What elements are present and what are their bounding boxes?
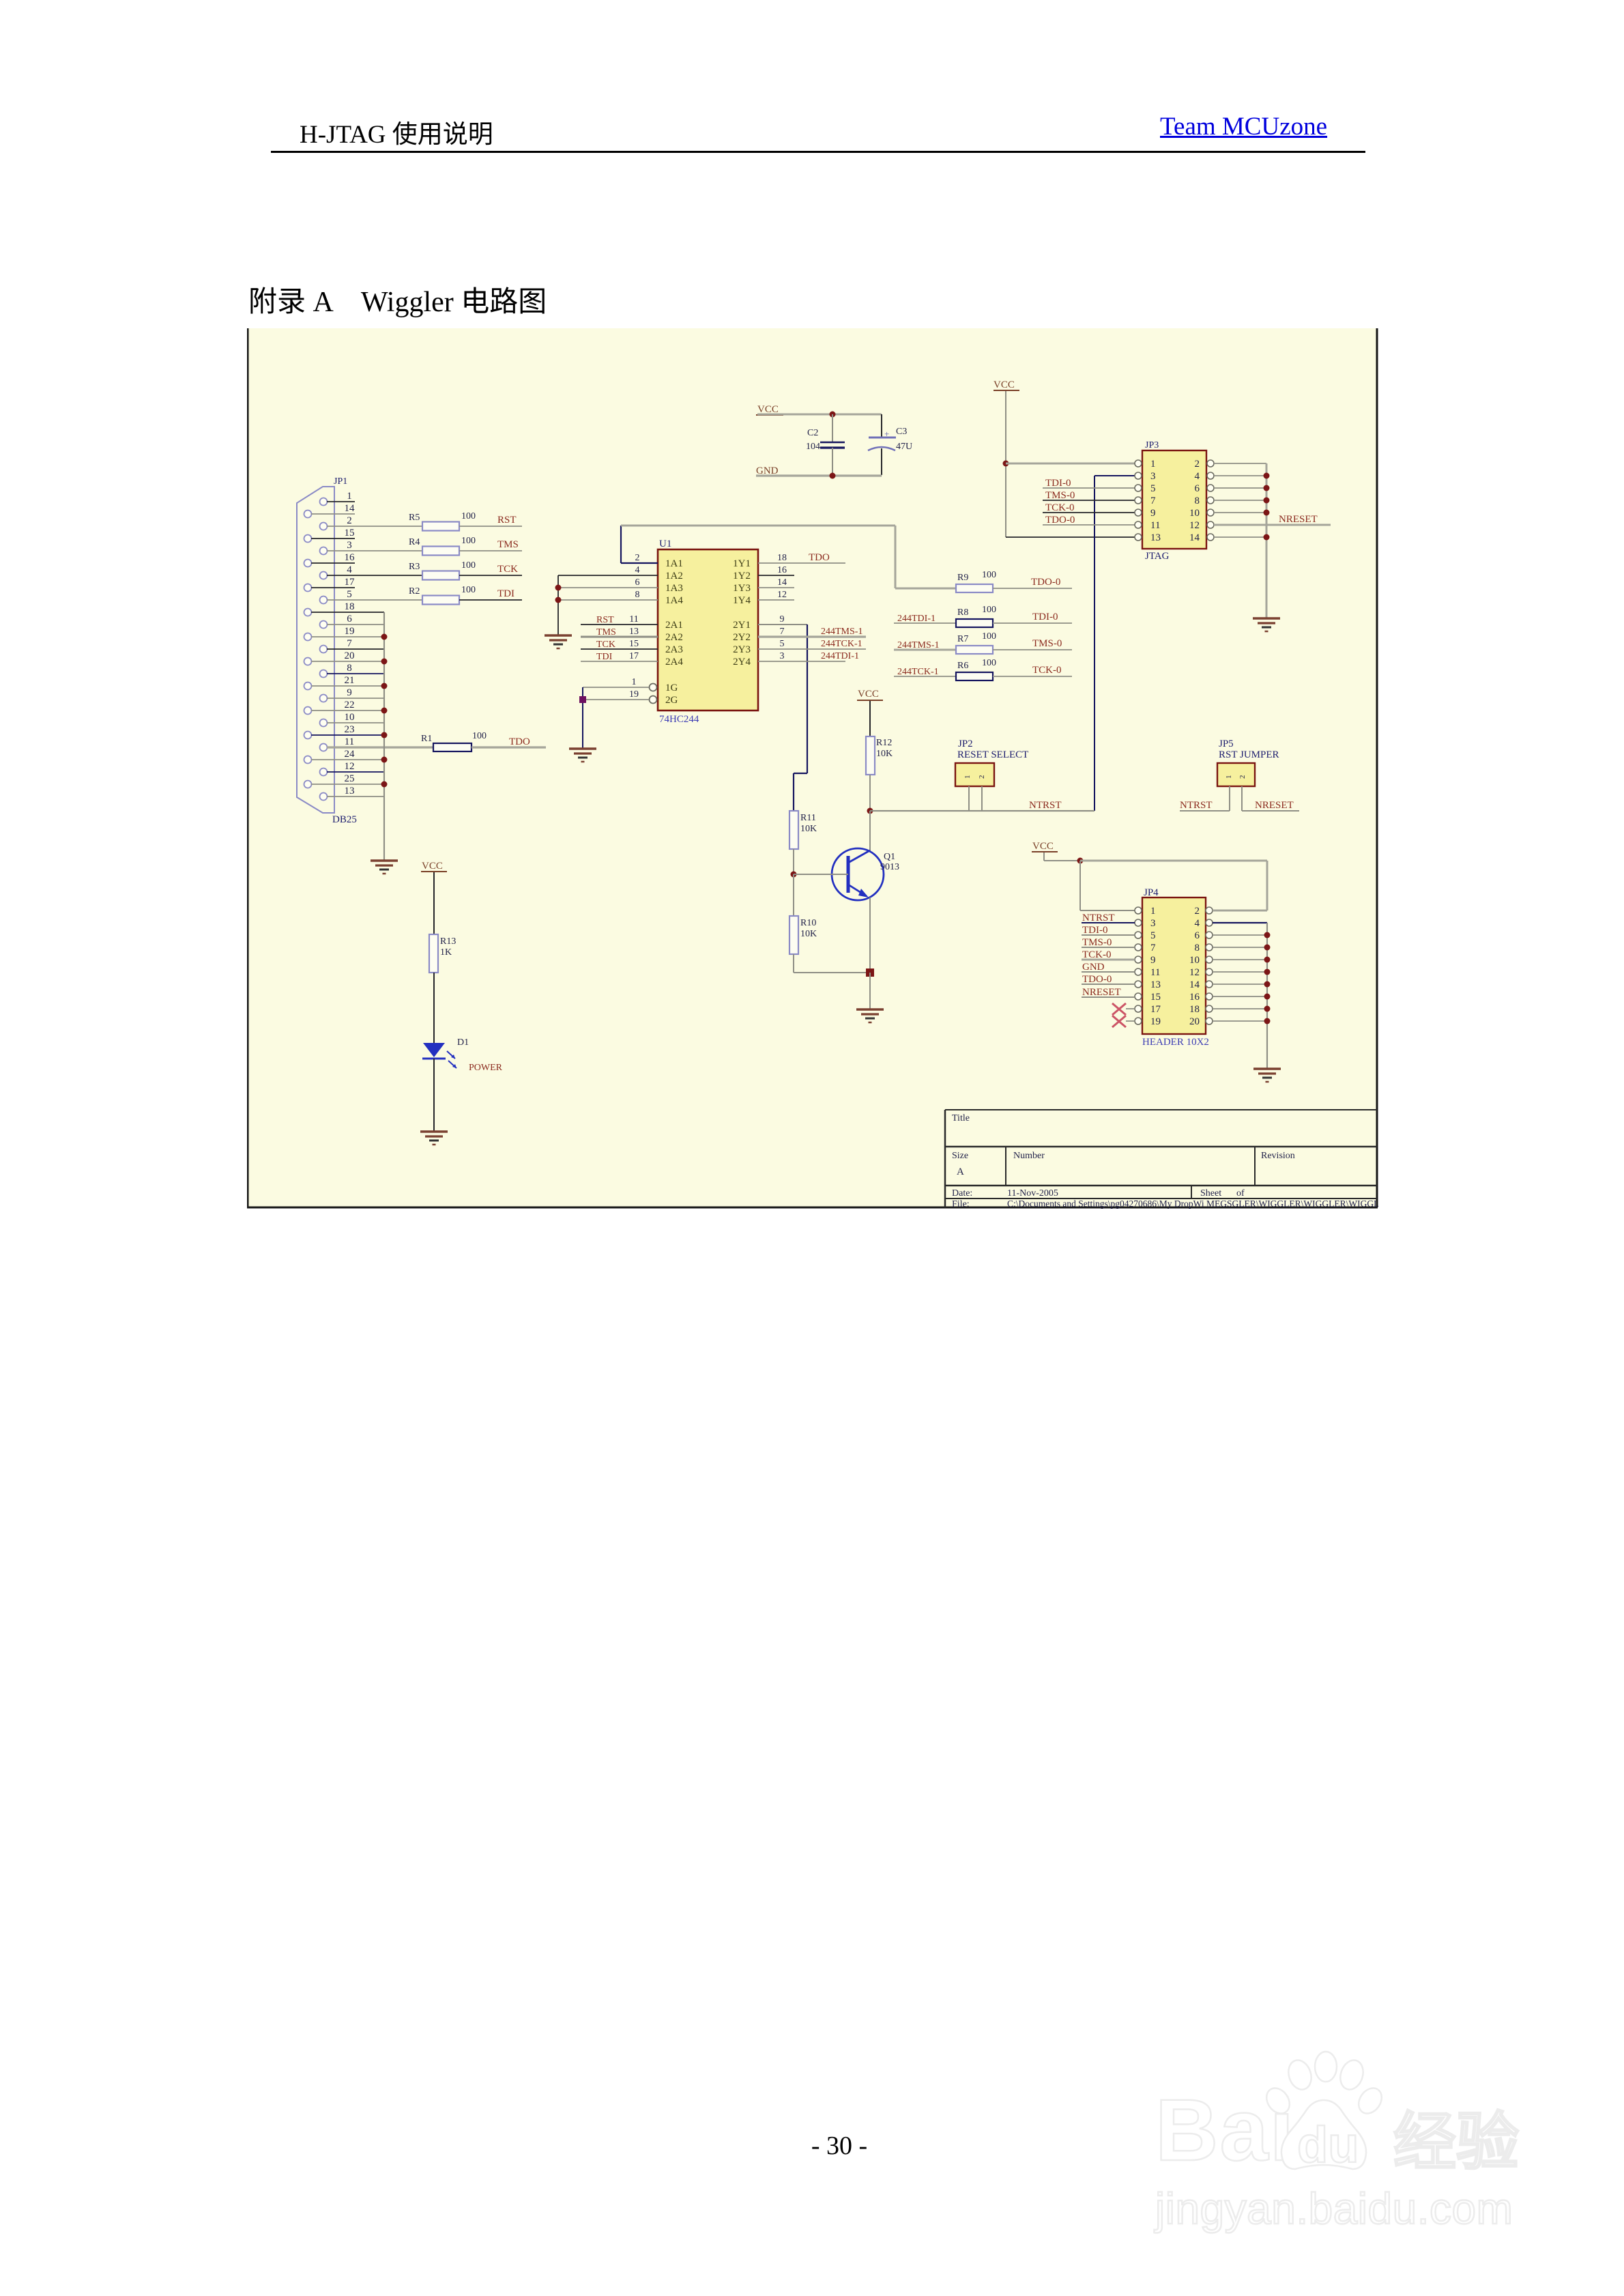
svg-text:12: 12 — [777, 590, 787, 600]
JP3 pin 4 circle — [1207, 472, 1214, 479]
svg-text:2: 2 — [1195, 459, 1200, 470]
svg-text:100: 100 — [982, 658, 996, 668]
JP4 pin number 7 — [1150, 943, 1156, 953]
junction JP4 even-pin tie at y=1370 — [1264, 932, 1271, 938]
U1 pin number 7 — [780, 627, 785, 637]
svg-text:1: 1 — [1225, 775, 1233, 779]
svg-text:1: 1 — [1150, 906, 1156, 917]
U1 pin number 4 — [635, 565, 640, 575]
svg-text:Revision: Revision — [1261, 1151, 1295, 1161]
svg-text:R10: R10 — [800, 918, 816, 928]
JP4 part label HEADER 10X2 — [1142, 1037, 1209, 1048]
resistor R12 10K — [866, 736, 893, 775]
JP3 pin number 5 — [1150, 483, 1156, 494]
wire TDO stub after R1 — [472, 746, 546, 748]
wire U1 2A input TCK — [581, 648, 658, 650]
net label TDO — [509, 736, 530, 747]
svg-text:20: 20 — [1189, 1016, 1200, 1027]
JP1 pin number 8 — [347, 663, 352, 674]
JP4 pin number 3 — [1150, 918, 1156, 929]
JP4 pin number 8 — [1195, 943, 1200, 953]
svg-text:244TDI-1: 244TDI-1 — [897, 614, 936, 624]
svg-text:15: 15 — [345, 528, 355, 539]
svg-text:17: 17 — [1150, 1004, 1161, 1015]
wire GND rail — [756, 474, 882, 476]
JP1 pin number 19 — [345, 626, 355, 637]
U1 pin name 2Y3 — [733, 644, 751, 655]
no-connect X at JP4 pin17 — [1112, 1003, 1135, 1015]
svg-text:TMS-0: TMS-0 — [1032, 638, 1062, 649]
wire U1 1G — [583, 687, 649, 688]
svg-text:jingyan.baidu.com: jingyan.baidu.com — [1154, 2184, 1513, 2233]
svg-text:1: 1 — [1150, 459, 1156, 470]
power net label GND — [756, 465, 779, 476]
svg-text:100: 100 — [461, 585, 476, 595]
U1 pin number 11 — [629, 614, 638, 625]
junction 2G ground tie — [579, 696, 586, 703]
wire R10 bottom to emitter node — [794, 954, 870, 973]
svg-text:TCK-0: TCK-0 — [1045, 502, 1075, 513]
U1 pin name 1Y3 — [733, 583, 751, 594]
svg-text:TMS: TMS — [596, 627, 616, 637]
wire 244TCK-1 into R6 — [894, 676, 956, 677]
junction JP4 even-pin tie at y=1478 — [1264, 1006, 1271, 1012]
JP4 pin number 18 — [1189, 1004, 1200, 1015]
U1 pin number 15 — [629, 639, 639, 649]
wire JP4 pin 8 stub — [1213, 947, 1267, 948]
wire drop from top rail to R9 — [895, 526, 897, 588]
net label NTRST at JP4 — [1082, 913, 1115, 923]
svg-text:10: 10 — [345, 712, 355, 723]
net label NTRST — [1029, 800, 1062, 811]
svg-text:6: 6 — [1195, 483, 1200, 494]
JP3 reference label — [1145, 440, 1159, 450]
JP1 pin 2 circle — [320, 523, 328, 530]
svg-text:TDO-0: TDO-0 — [1045, 515, 1075, 526]
JP1 pin number 6 — [347, 614, 352, 625]
wire JP4 pin 16 stub — [1213, 996, 1267, 997]
net label TDI — [497, 588, 514, 599]
JP4 pin 8 circle — [1206, 944, 1213, 951]
wire NTRST column (JP3 pin3 down to NTRST rail) — [1094, 476, 1095, 811]
JP4 pin 7 circle — [1135, 944, 1142, 951]
svg-text:23: 23 — [345, 724, 355, 735]
JP3 pin 12 circle — [1207, 521, 1214, 528]
svg-text:TDI: TDI — [497, 588, 514, 599]
JP3 pin number 10 — [1189, 508, 1200, 519]
svg-text:17: 17 — [629, 651, 639, 661]
svg-text:19: 19 — [345, 626, 355, 637]
wire VCC down to JP4 rail — [1044, 852, 1080, 861]
connector JP1 label — [334, 476, 347, 487]
JP1 pin 21 circle — [304, 683, 312, 690]
svg-text:R11: R11 — [800, 813, 816, 823]
wire JP3 pin1 — [1006, 463, 1135, 465]
svg-text:1G: 1G — [665, 683, 678, 693]
watermark paw pad — [1281, 2100, 1366, 2169]
svg-text:4: 4 — [635, 565, 640, 575]
header rule — [271, 151, 1365, 153]
svg-text:NTRST: NTRST — [1029, 800, 1062, 811]
watermark paw toes — [1285, 2057, 1315, 2093]
net label 244TMS-1 — [821, 627, 862, 637]
junction on JP1 ground bus at y=969 — [381, 659, 388, 665]
ground symbol for 1G/2G — [569, 749, 596, 762]
wire JP3 stub TDI-0 — [1043, 487, 1135, 489]
svg-text:17: 17 — [345, 577, 356, 588]
JP3 pin 11 circle — [1135, 521, 1142, 528]
JP5 label RST JUMPER — [1219, 749, 1279, 760]
svg-text:244TDI-1: 244TDI-1 — [821, 651, 859, 661]
svg-text:10: 10 — [1189, 955, 1200, 966]
JP1 pin 12 circle — [320, 769, 328, 776]
svg-text:RST: RST — [596, 615, 614, 625]
net label NRESET at JP5 — [1255, 800, 1294, 811]
ground symbol below JP3 — [1253, 618, 1280, 631]
svg-text:TDO: TDO — [509, 736, 530, 747]
wire D1 to ground — [433, 1059, 435, 1132]
svg-text:TDI: TDI — [596, 652, 613, 662]
JP4 pin 10 circle — [1206, 956, 1213, 963]
JP4 pin 20 circle — [1206, 1018, 1213, 1024]
title block Date field — [952, 1188, 1058, 1199]
wire base — [794, 874, 848, 875]
net label TDO-0 at JP4 — [1082, 974, 1112, 985]
wire JP4 pin4 stub — [1213, 922, 1267, 923]
JP3 pin number 7 — [1150, 496, 1156, 506]
resistor R11 10K — [789, 811, 817, 849]
JP4 pin number 14 — [1189, 979, 1200, 990]
junction on JP1 ground bus at y=933 — [381, 634, 388, 640]
U1 pin number 13 — [629, 627, 639, 637]
junction JP4 even-pin tie at y=1424 — [1264, 969, 1271, 975]
JP3 pin 6 circle — [1207, 485, 1214, 491]
connector JP2 body — [955, 763, 994, 786]
svg-text:13: 13 — [1150, 532, 1161, 543]
svg-text:74HC244: 74HC244 — [659, 714, 699, 725]
svg-text:4: 4 — [1195, 471, 1200, 482]
JP3 pin number 14 — [1189, 532, 1200, 543]
wire JP1 pin 7 — [327, 648, 384, 650]
JP3 pin number 13 — [1150, 532, 1161, 543]
svg-text:1A4: 1A4 — [665, 595, 683, 606]
U1 pin name 2A1 — [665, 620, 683, 631]
wire U1 1A3 input — [558, 587, 658, 588]
svg-text:RST JUMPER: RST JUMPER — [1219, 749, 1279, 760]
wire JP1 pin 25 — [311, 784, 384, 785]
U1 1G enable bubble — [650, 684, 657, 691]
junction on JP1 ground bus at y=1149 — [381, 781, 388, 788]
wire JP4 pin 18 stub — [1213, 1008, 1267, 1009]
svg-text:12: 12 — [1189, 967, 1200, 978]
JP1 pin 3 circle — [320, 547, 328, 555]
svg-text:RST: RST — [497, 515, 517, 526]
junction NTRST at R12/collector — [867, 808, 873, 814]
JP4 pin number 19 — [1150, 1016, 1161, 1027]
svg-text:TDI-0: TDI-0 — [1032, 612, 1058, 622]
title block outline — [945, 1110, 1377, 1207]
junction JP4 VCC rail — [1077, 858, 1084, 864]
junction JP4 even-pin tie at y=1442 — [1264, 981, 1271, 988]
junction JP3 even-pin tie at y=787 — [1264, 534, 1270, 541]
wire JP1 pin 14 — [311, 513, 355, 515]
JP1 pin 16 circle — [304, 560, 312, 567]
svg-text:4: 4 — [347, 564, 352, 575]
svg-text:TCK: TCK — [596, 640, 615, 650]
svg-text:R5: R5 — [409, 513, 420, 523]
svg-text:R2: R2 — [409, 586, 420, 597]
IC U1 74HC244 body — [658, 549, 758, 711]
svg-text:1A1: 1A1 — [665, 558, 683, 569]
svg-text:Size: Size — [952, 1151, 968, 1161]
JP1 pin number 4 — [347, 564, 352, 575]
net label TCK — [497, 564, 518, 575]
JP1 pin 6 circle — [320, 621, 328, 629]
JP4 pin 19 circle — [1135, 1018, 1142, 1024]
svg-text:2A3: 2A3 — [665, 644, 683, 655]
svg-text:TCK: TCK — [497, 564, 518, 575]
wire VCC rail to C2/C3 — [757, 414, 882, 416]
svg-text:2Y2: 2Y2 — [733, 632, 751, 643]
JP1 pin 22 circle — [304, 707, 312, 715]
svg-text:14: 14 — [777, 577, 787, 588]
net label TDO-0 at JP3 — [1045, 515, 1075, 526]
junction JP4 even-pin tie at y=1496 — [1264, 1018, 1271, 1024]
JP3 pin 5 circle — [1135, 485, 1142, 491]
svg-text:1: 1 — [632, 677, 637, 687]
svg-text:File:: File: — [952, 1199, 970, 1209]
wire JP4 pin 12 stub — [1213, 971, 1267, 973]
svg-text:HEADER 10X2: HEADER 10X2 — [1142, 1037, 1209, 1048]
net label TDI-0 — [1032, 612, 1058, 622]
junction 1A3 ground tie — [555, 585, 562, 591]
wire TDI stub after R2 — [459, 599, 522, 601]
svg-text:2A1: 2A1 — [665, 620, 683, 631]
U1 pin name 1Y1 — [733, 558, 751, 569]
resistor R13 1K — [429, 934, 456, 973]
wire U1 pin2 1A1 input — [621, 562, 658, 564]
power net label VCC (LED) — [421, 861, 447, 872]
svg-text:9: 9 — [347, 687, 352, 698]
JP3 pin 7 circle — [1135, 497, 1142, 504]
wire R11 to base junction — [793, 849, 794, 874]
wire U1 2A input TDI — [581, 661, 658, 662]
net label TMS-0 at JP3 — [1045, 490, 1075, 501]
U1 pin number 18 — [777, 553, 787, 563]
svg-text:16: 16 — [345, 552, 356, 563]
wire 1G/2G ground tie — [582, 687, 583, 749]
svg-text:VCC: VCC — [422, 861, 443, 872]
net label TCK-0 at JP4 — [1082, 949, 1112, 960]
JP4 pin number 6 — [1195, 930, 1200, 941]
wire JP1 pin 17 — [311, 587, 355, 588]
wire RST stub after R5 — [459, 526, 522, 527]
svg-text:JP5: JP5 — [1219, 738, 1234, 749]
U1 pin name 1Y2 — [733, 571, 751, 582]
wire JP1 pin 5 — [327, 599, 422, 601]
no-connect X at JP4 pin19 — [1112, 1016, 1135, 1027]
LED D1 — [422, 1043, 456, 1068]
JP4 pin number 15 — [1150, 992, 1161, 1003]
wire JP3 pin3 to NTRST column — [1094, 475, 1135, 476]
Baidu jingyan watermark — [1133, 2034, 1542, 2252]
net label 244TCK-1 — [821, 639, 862, 649]
wire TCK stub after R3 — [459, 575, 522, 576]
circuit schematic — [247, 328, 1378, 1209]
wire JP1 pin 21 — [311, 685, 384, 687]
svg-text:C:\Documents and Settings\pg04: C:\Documents and Settings\pg04270686\My … — [1007, 1199, 1378, 1209]
capacitor C3 47U electrolytic — [868, 414, 912, 475]
junction VCC at JP3 pin1 — [1003, 461, 1009, 467]
wire JP3 right pin at y=679 — [1214, 463, 1266, 464]
svg-text:JP4: JP4 — [1144, 887, 1159, 898]
svg-text:10K: 10K — [876, 749, 893, 759]
JP3 pin number 9 — [1150, 508, 1156, 519]
U1 pin name 2G — [665, 695, 678, 706]
svg-text:14: 14 — [1189, 979, 1200, 990]
wire 244TDI-1 into R8 — [894, 622, 956, 624]
JP4 pin 9 circle — [1135, 956, 1142, 963]
wire R12 to NTRST rail — [869, 775, 871, 811]
svg-text:25: 25 — [345, 773, 355, 784]
header left text — [300, 113, 493, 150]
wire JP5 pin1 down — [1229, 786, 1230, 811]
net label TCK-0 — [1032, 665, 1062, 676]
svg-text:5: 5 — [780, 639, 785, 649]
U1 pin name 2A4 — [665, 657, 683, 668]
JP3 pin 2 circle — [1207, 460, 1214, 467]
U1 pin number 5 — [780, 639, 785, 649]
svg-text:244TCK-1: 244TCK-1 — [897, 667, 939, 677]
wire JP5 pin2 down — [1241, 786, 1243, 811]
net label TDO at 1Y1 — [809, 552, 830, 563]
schematic sheet background — [248, 328, 1377, 1207]
svg-text:11: 11 — [1150, 520, 1160, 531]
svg-text:A: A — [957, 1166, 964, 1177]
svg-text:11: 11 — [345, 736, 354, 747]
svg-text:1A2: 1A2 — [665, 571, 683, 582]
JP4 pin number 13 — [1150, 979, 1161, 990]
JP3 pin number 1 — [1150, 459, 1156, 470]
schematic border bottom — [247, 1207, 1378, 1209]
wire U1 2Y2 output 244TMS-1 — [758, 635, 866, 637]
JP1 pin number 10 — [345, 712, 355, 723]
wire U1 2A input TMS — [581, 636, 658, 638]
resistor R2 100 — [409, 585, 476, 605]
JP1 pin 20 circle — [304, 658, 312, 665]
JP3 pin number 2 — [1195, 459, 1200, 470]
svg-text:47U: 47U — [896, 442, 912, 452]
JP1 pin number 11 — [345, 736, 354, 747]
JP3 pin 3 circle — [1135, 472, 1142, 479]
svg-text:13: 13 — [629, 627, 639, 637]
JP4 pin number 5 — [1150, 930, 1156, 941]
ground symbol below JP4 — [1253, 1069, 1281, 1082]
svg-text:2Y4: 2Y4 — [733, 657, 751, 668]
resistor R6 100 — [956, 658, 996, 680]
svg-text:6: 6 — [1195, 930, 1200, 941]
JP4 pin 6 circle — [1206, 932, 1213, 938]
U1 pin number 17 — [629, 651, 639, 661]
title block File field — [952, 1199, 1385, 1209]
svg-text:100: 100 — [982, 570, 996, 580]
JP4 pin 15 circle — [1135, 993, 1142, 1000]
JP1 pin 11 circle — [320, 744, 328, 751]
svg-text:1K: 1K — [440, 947, 452, 958]
wire JP4 stub TDI-0 — [1082, 934, 1135, 936]
connector JP5 body — [1217, 763, 1255, 786]
svg-text:20: 20 — [345, 650, 355, 661]
svg-text:3: 3 — [1150, 918, 1156, 929]
title block Size field — [952, 1151, 968, 1177]
JP1 pin 1 circle — [320, 498, 328, 506]
svg-text:+: + — [884, 429, 889, 439]
wire NRESET from JP3 pin12 — [1214, 524, 1331, 526]
svg-text:NRESET: NRESET — [1279, 514, 1318, 525]
wire TDO-0 stub after R9 — [993, 588, 1072, 589]
JP3 pin 9 circle — [1135, 509, 1142, 516]
wire U1 1Y2 stub — [758, 575, 794, 576]
svg-text:9: 9 — [1150, 955, 1156, 966]
svg-text:8: 8 — [1195, 496, 1200, 506]
junction JP3 even-pin tie at y=715 — [1264, 485, 1270, 491]
JP1 pin number 21 — [345, 675, 355, 686]
JP4 pin 17 circle — [1135, 1005, 1142, 1012]
U1 pin name 1Y4 — [733, 595, 751, 606]
JP4 pin 11 circle — [1135, 968, 1142, 975]
svg-text:9013: 9013 — [880, 862, 899, 872]
svg-text:10: 10 — [1189, 508, 1200, 519]
header right link Team MCUzone — [1160, 112, 1327, 141]
wire JP1 pin 3 — [327, 550, 422, 551]
wire 244TMS-1 into R7 — [894, 649, 956, 651]
svg-text:100: 100 — [461, 536, 476, 546]
net label NTRST at JP5 — [1180, 800, 1213, 811]
JP3 pin 8 circle — [1207, 497, 1214, 504]
junction on JP1 ground bus at y=1077 — [381, 732, 388, 738]
JP3 pin 1 circle — [1135, 460, 1142, 467]
svg-text:2: 2 — [978, 775, 986, 779]
wire JP4 stub GND — [1082, 971, 1135, 973]
resistor R10 10K — [789, 916, 817, 954]
wire JP3 right pin at y=697 — [1214, 475, 1266, 476]
svg-text:100: 100 — [472, 731, 487, 741]
svg-text:8: 8 — [1195, 943, 1200, 953]
JP4 pin number 17 — [1150, 1004, 1161, 1015]
connector JP4 body — [1142, 898, 1206, 1034]
svg-text:18: 18 — [1189, 1004, 1200, 1015]
svg-text:NRESET: NRESET — [1082, 987, 1121, 998]
svg-text:24: 24 — [345, 749, 356, 760]
resistor R8 100 — [956, 605, 996, 627]
net label TDI-0 at JP3 — [1045, 478, 1071, 489]
net label TMS-0 at JP4 — [1082, 937, 1112, 948]
svg-text:11-Nov-2005: 11-Nov-2005 — [1007, 1188, 1058, 1199]
schematic border left — [247, 328, 249, 1207]
svg-text:JP1: JP1 — [334, 476, 347, 487]
JP1 pin number 24 — [345, 749, 356, 760]
svg-text:10K: 10K — [800, 929, 817, 939]
JP1 pin 23 circle — [304, 732, 312, 739]
svg-text:3: 3 — [1150, 471, 1156, 482]
svg-text:GND: GND — [1082, 962, 1105, 973]
net label TDO-0 — [1031, 577, 1060, 588]
svg-text:16: 16 — [1189, 992, 1200, 1003]
title block Title field — [952, 1113, 970, 1123]
U1 pin name 2Y4 — [733, 657, 751, 668]
JP4 pin number 10 — [1189, 955, 1200, 966]
svg-text:3: 3 — [347, 540, 352, 551]
